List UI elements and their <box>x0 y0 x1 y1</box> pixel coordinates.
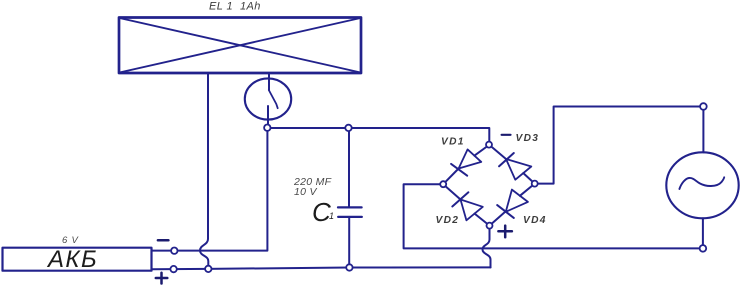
minus sign near VD3 <box>502 134 511 136</box>
plus sign below bridge <box>498 226 512 238</box>
node at lamp lead on bottom bus <box>205 266 211 272</box>
diode VD4 cathode bar <box>497 205 514 218</box>
battery minus sign <box>158 239 169 242</box>
node at capacitor bottom <box>346 264 352 270</box>
diode VD4 wire from bottom corner <box>490 212 506 226</box>
capacitor C1 plates <box>338 207 362 217</box>
diode VD2 base wire <box>475 214 490 226</box>
capacitor C1 bottom lead <box>348 218 350 268</box>
diode VD1 cathode bar <box>451 164 467 176</box>
battery minus terminal circle <box>171 248 177 254</box>
wire: lamp left lead down with crossover jog <box>200 73 208 266</box>
battery plus terminal circle <box>170 266 176 272</box>
svg-text:6 V: 6 V <box>62 235 80 246</box>
diode VD1 base wire <box>475 145 490 156</box>
svg-text:АКБ: АКБ <box>46 246 98 273</box>
wire: bridge right corner up to top-right node <box>535 107 704 184</box>
bridge top corner node <box>486 142 492 148</box>
wire: generator bottom to bottom-right node <box>702 218 704 248</box>
battery plus sign <box>156 273 168 284</box>
node top-right <box>700 103 707 110</box>
battery AKB body <box>3 248 152 271</box>
wire: meter node down and left to battery minus terminal <box>152 128 268 251</box>
svg-text:VD1: VD1 <box>441 137 465 148</box>
diode VD4 triangle <box>506 190 528 212</box>
bridge bottom corner node <box>487 223 493 229</box>
diode VD1 triangle <box>459 149 482 168</box>
node bottom-right <box>700 245 707 252</box>
wire: top-right node down to generator top <box>702 107 704 153</box>
svg-text:VD4: VD4 <box>523 215 547 226</box>
svg-text:1: 1 <box>329 211 334 221</box>
diode VD3 cathode bar <box>499 153 514 166</box>
AC generator sine wave <box>679 177 724 189</box>
wire: top bus from meter node to bridge top <box>267 128 489 142</box>
bridge left corner node <box>440 181 446 187</box>
meter bottom stub <box>267 106 269 125</box>
meter/switch circle <box>245 78 291 119</box>
diode VD2 cathode bar <box>452 192 468 206</box>
svg-text:VD3: VD3 <box>516 133 540 144</box>
lamp EL1 diagonal 1 <box>120 18 361 73</box>
diode VD3 base wire <box>523 173 534 184</box>
diode VD2 wire from left corner <box>443 184 460 199</box>
bridge right corner node <box>532 181 538 187</box>
wire: bridge bottom lead with crossover jog <box>483 226 491 268</box>
node at capacitor top <box>345 125 351 131</box>
lamp EL1 diagonal 2 <box>120 18 361 73</box>
svg-text:EL 1 1Ah: EL 1 1Ah <box>209 1 261 13</box>
diode VD3 wire from top corner <box>489 145 506 159</box>
svg-text:VD2: VD2 <box>436 215 460 226</box>
meter blade line <box>269 90 278 108</box>
wire: bottom bus from bridge bottom to battery plus terminal <box>152 267 491 269</box>
wire: bridge left corner to lower bus to generator bottom <box>404 184 703 248</box>
diode VD2 triangle <box>461 200 483 221</box>
wire: lamp right lead into meter <box>268 73 270 90</box>
lamp EL1 crossed-box body <box>119 18 361 74</box>
AC generator circle <box>666 152 738 218</box>
capacitor C1 top lead <box>348 128 350 207</box>
diode VD4 base wire <box>520 184 535 196</box>
diode VD3 triangle <box>506 159 531 180</box>
diode VD1 anode wire <box>443 169 458 185</box>
node below meter <box>264 125 270 131</box>
